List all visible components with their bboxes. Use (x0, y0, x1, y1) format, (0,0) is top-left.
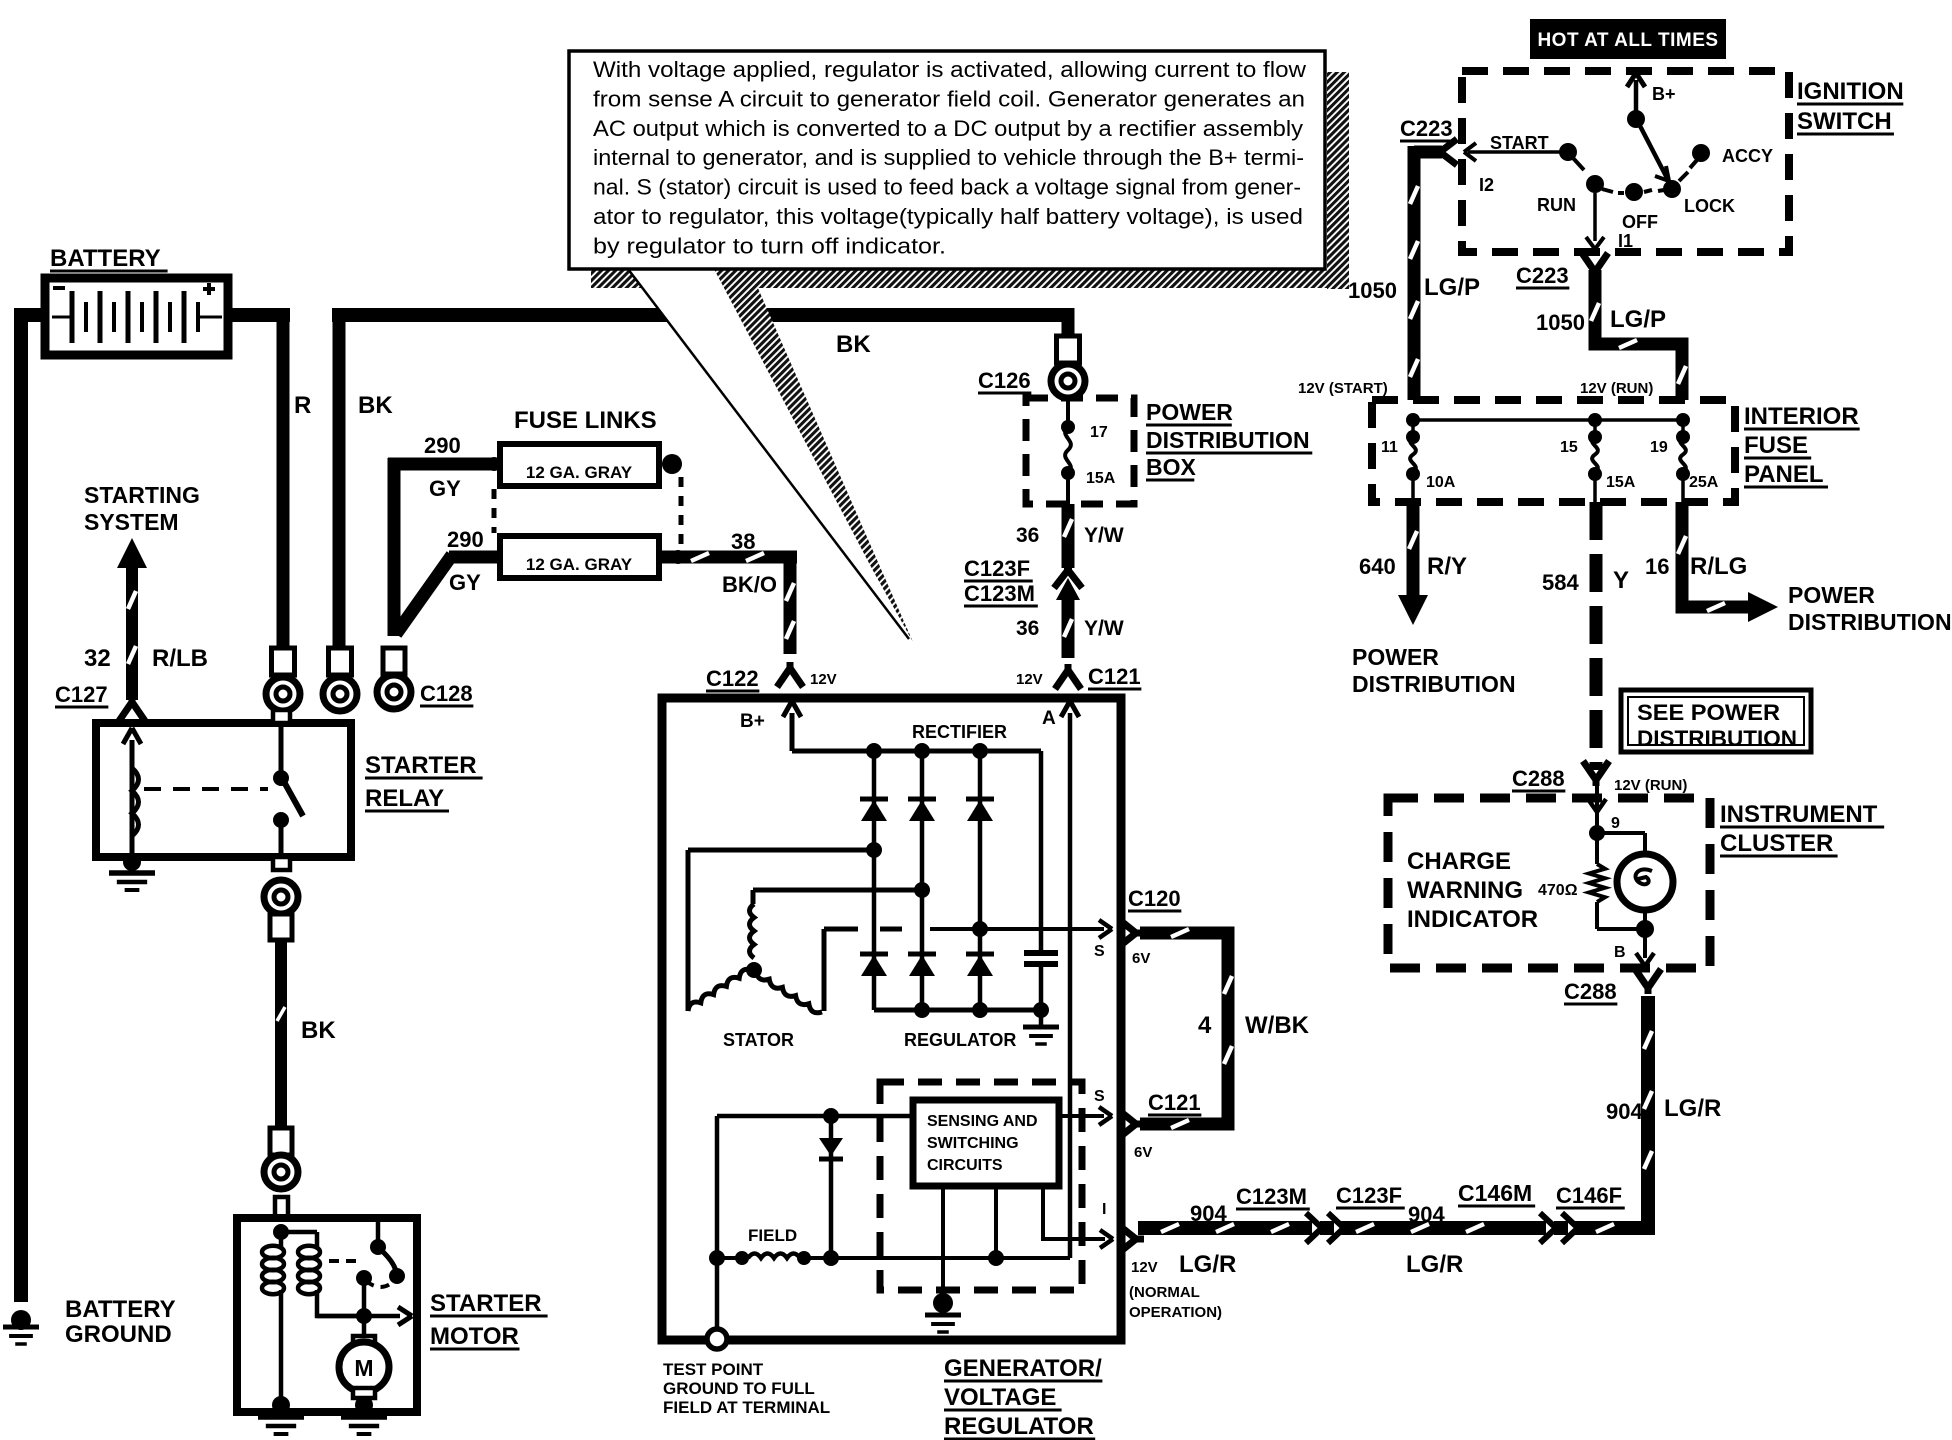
svg-text:REGULATOR: REGULATOR (904, 1030, 1016, 1050)
see power distribution box (1621, 690, 1811, 752)
svg-text:LG/R: LG/R (1664, 1095, 1721, 1122)
S circuit line to C120 (930, 920, 1112, 938)
svg-text:C123F: C123F (964, 556, 1030, 581)
svg-text:CIRCUITS: CIRCUITS (927, 1157, 1003, 1174)
svg-text:DISTRIBUTION: DISTRIBUTION (1352, 671, 1516, 697)
connector at I output (1134, 1236, 1144, 1243)
node fuse link F2 right (671, 550, 685, 564)
svg-text:internal to generator, and is: internal to generator, and is supplied t… (593, 145, 1304, 170)
svg-text:POWER: POWER (1146, 399, 1233, 425)
ring terminal on R wire (266, 648, 300, 711)
svg-text:1050: 1050 (1348, 278, 1397, 303)
wire 1050 LG/P start circuit (1410, 146, 1442, 400)
rectifier diode D2 upper (908, 799, 936, 821)
fuse 19 25A (1676, 420, 1690, 502)
svg-text:A: A (1042, 708, 1056, 729)
node bot3 (1033, 1002, 1049, 1018)
wire 290 GY to upper fuse link (388, 458, 497, 636)
starter motor box (237, 1218, 417, 1412)
starter motor ground left (258, 1396, 304, 1434)
svg-text:1050: 1050 (1536, 310, 1585, 335)
ignition switch box (1462, 71, 1789, 252)
svg-text:Y: Y (1613, 567, 1629, 594)
svg-text:OPERATION): OPERATION) (1129, 1304, 1222, 1321)
svg-text:RECTIFIER: RECTIFIER (912, 722, 1007, 742)
I output from sensing circuits (1043, 1186, 1113, 1248)
ring terminal above starter motor (264, 1128, 298, 1189)
wire 640 R/Y (1398, 502, 1428, 625)
svg-text:LG/P: LG/P (1424, 274, 1480, 301)
capacitor C (noise suppression) (1024, 751, 1058, 1010)
field suppression diode (819, 1116, 843, 1258)
node field diode top (823, 1108, 839, 1124)
svg-text:4: 4 (1198, 1012, 1212, 1039)
svg-text:PANEL: PANEL (1744, 461, 1824, 488)
wire battery negative to ground (BK) (14, 308, 48, 1302)
node bot1 (914, 1002, 930, 1018)
svg-text:10A: 10A (1426, 474, 1456, 491)
inline connector C146M/C146F (1540, 1213, 1578, 1243)
svg-text:WARNING: WARNING (1407, 877, 1523, 904)
wire 904 LG/R horizontal (1138, 1224, 1655, 1232)
connector C127 (129, 696, 136, 704)
svg-text:BATTERY: BATTERY (50, 245, 161, 272)
svg-text:LG/R: LG/R (1406, 1251, 1463, 1278)
wire 36 Y/W upper (1064, 504, 1072, 568)
rectifier bottom bus (874, 1008, 1041, 1013)
svg-text:12 GA. GRAY: 12 GA. GRAY (526, 463, 633, 482)
svg-text:470Ω: 470Ω (1538, 882, 1578, 899)
wire battery positive bus (BK) top run (332, 308, 1068, 650)
ignition switch rotor blade (1638, 122, 1669, 181)
svg-text:W/BK: W/BK (1245, 1012, 1310, 1039)
node bus fuse 19 (1676, 413, 1690, 427)
test point terminal (707, 1329, 727, 1349)
svg-text:C288: C288 (1512, 766, 1565, 791)
svg-text:C128: C128 (420, 681, 473, 706)
svg-text:BK: BK (836, 331, 871, 358)
S output from sensing circuits (1059, 1107, 1112, 1125)
svg-text:36: 36 (1016, 617, 1039, 640)
starter motor shunt coil (281, 1232, 362, 1316)
wire BK drop to C126 (1062, 308, 1075, 338)
wire START to C223 (1464, 143, 1560, 161)
wire 32 R/LB to starting system (arrow) (117, 538, 147, 700)
rectifier diode D3 upper (966, 799, 994, 821)
svg-text:904: 904 (1606, 1099, 1643, 1124)
svg-text:BATTERY: BATTERY (65, 1296, 176, 1323)
svg-text:290: 290 (424, 433, 461, 458)
contact OFF (1618, 183, 1652, 201)
svg-text:B+: B+ (740, 711, 765, 732)
dashed tie right (679, 477, 684, 548)
voltage regulator dashed box (880, 1082, 1082, 1290)
sensing circuits to field node (994, 1186, 998, 1256)
ring terminal C126 (1051, 336, 1085, 398)
wire 290 GY to lower fuse link (396, 555, 502, 634)
svg-text:(NORMAL: (NORMAL (1129, 1284, 1200, 1301)
contact ACCY (1690, 144, 1710, 168)
svg-text:I: I (1102, 1201, 1106, 1218)
svg-text:CHARGE: CHARGE (1407, 848, 1511, 875)
node bus3 (972, 743, 988, 759)
contact RUN (1586, 175, 1613, 193)
ignition switch B+ feed (1627, 73, 1645, 128)
fuse link F2 12 GA. GRAY (500, 536, 659, 578)
starter motor series field coil (262, 1232, 284, 1404)
regulator ground (925, 1186, 961, 1332)
svg-text:12V: 12V (810, 671, 837, 688)
stator phase 3 winding (756, 929, 902, 1013)
svg-text:GY: GY (449, 570, 481, 595)
svg-text:C123M: C123M (964, 581, 1035, 606)
rectifier leg 1 (872, 751, 877, 1010)
svg-text:STARTING: STARTING (84, 482, 200, 508)
connector C123F C123M inline (1054, 566, 1082, 600)
connector C288 lower (1645, 986, 1652, 994)
svg-text:INTERIOR: INTERIOR (1744, 403, 1859, 430)
wire 1050 LG/P run circuit (1591, 270, 1686, 400)
svg-text:INSTRUMENT: INSTRUMENT (1720, 801, 1878, 828)
svg-text:Y/W: Y/W (1084, 617, 1124, 640)
connector C122 (787, 662, 794, 670)
svg-text:SWITCH: SWITCH (1797, 108, 1892, 135)
node field diode bottom (823, 1250, 839, 1266)
svg-text:C121: C121 (1088, 664, 1141, 689)
svg-text:12 GA. GRAY: 12 GA. GRAY (526, 555, 633, 574)
svg-text:C121: C121 (1148, 1090, 1201, 1115)
starter motor terminal stub (275, 1197, 288, 1218)
fuse 17 15A in PDB (1061, 398, 1075, 504)
svg-text:HOT AT ALL TIMES: HOT AT ALL TIMES (1537, 30, 1718, 51)
charge indicator lamp (1597, 833, 1673, 929)
svg-text:BK/O: BK/O (722, 572, 777, 597)
dashed tie left (492, 489, 497, 533)
svg-text:START: START (1490, 133, 1549, 153)
svg-text:C146M: C146M (1458, 1180, 1532, 1206)
svg-text:12V: 12V (1016, 671, 1043, 688)
svg-text:by regulator to turn off indic: by regulator to turn off indicator. (593, 233, 946, 258)
svg-text:17: 17 (1090, 424, 1108, 441)
starter relay box (96, 723, 351, 857)
rectifier leg 2 (920, 751, 925, 1010)
ring terminal C128 (377, 648, 411, 709)
svg-text:POWER: POWER (1352, 644, 1439, 670)
svg-text:GROUND: GROUND (65, 1321, 172, 1348)
connector C288 upper (1593, 778, 1600, 786)
svg-text:LG/P: LG/P (1610, 306, 1666, 333)
regulator internal ground (1023, 1010, 1059, 1044)
node bus fuse 15 (1588, 413, 1602, 427)
svg-text:DISTRIBUTION: DISTRIBUTION (1146, 427, 1310, 453)
contact LOCK (1658, 172, 1688, 198)
connector C223 (start) (1432, 149, 1442, 156)
callout pointer wedge shadow (713, 286, 913, 642)
contact START (1559, 143, 1584, 170)
power distribution box (1026, 398, 1134, 504)
inline connector C123M/C123F (1306, 1213, 1344, 1243)
node pin B junction (1636, 920, 1654, 938)
starter relay switch (273, 723, 303, 857)
stator phase 2 winding (750, 890, 923, 958)
node bus1 (866, 743, 882, 759)
svg-text:GROUND TO FULL: GROUND TO FULL (663, 1379, 815, 1398)
svg-text:R/LB: R/LB (152, 645, 208, 672)
svg-text:FIELD: FIELD (748, 1226, 797, 1245)
field supply line (717, 1116, 913, 1338)
starter motor ground right (341, 1396, 387, 1434)
svg-text:C120: C120 (1128, 886, 1181, 911)
rectifier top bus (792, 749, 1041, 754)
svg-text:FUSE: FUSE (1744, 432, 1808, 459)
svg-text:B: B (1614, 944, 1626, 961)
svg-text:FIELD AT TERMINAL: FIELD AT TERMINAL (663, 1398, 830, 1417)
fuse panel bus (1413, 418, 1683, 422)
rectifier diode D6 lower (966, 954, 994, 976)
svg-text:6V: 6V (1134, 1144, 1152, 1161)
generator voltage regulator box (662, 698, 1121, 1340)
starter relay ground (109, 853, 155, 890)
svg-text:584: 584 (1542, 570, 1579, 595)
svg-text:GENERATOR/: GENERATOR/ (944, 1355, 1102, 1382)
svg-text:VOLTAGE: VOLTAGE (944, 1384, 1056, 1411)
wire 904 LG/R vertical (1644, 996, 1652, 1235)
node fuse link F1 right (662, 454, 682, 474)
svg-text:9: 9 (1611, 815, 1620, 832)
node pin 9 (1589, 825, 1605, 841)
rectifier leg 3 (978, 751, 983, 1010)
svg-text:C122: C122 (706, 666, 759, 691)
starter relay coil (123, 728, 141, 857)
battery B1 (45, 278, 228, 355)
node phase1 (866, 842, 882, 858)
svg-text:904: 904 (1408, 1202, 1445, 1227)
svg-text:SWITCHING: SWITCHING (927, 1135, 1019, 1152)
svg-text:12V: 12V (1131, 1259, 1158, 1276)
node phase2 (914, 882, 930, 898)
svg-text:LOCK: LOCK (1684, 196, 1735, 216)
connector C120 (1134, 930, 1144, 937)
stator phase 1 winding (688, 850, 874, 1011)
svg-text:C223: C223 (1400, 116, 1453, 141)
svg-text:FUSE LINKS: FUSE LINKS (514, 407, 657, 434)
node fuse link F1 left (487, 457, 501, 471)
wire battery positive to starter relay (R) (225, 308, 290, 650)
starter motor M (339, 1316, 389, 1404)
starter motor junction node (273, 1224, 289, 1240)
svg-text:6V: 6V (1132, 950, 1150, 967)
svg-text:11: 11 (1381, 439, 1398, 456)
wire to pin B (1636, 929, 1654, 966)
svg-text:BK: BK (358, 392, 393, 419)
rectifier diode D4 lower (860, 954, 888, 976)
ring terminal below starter relay (264, 880, 298, 940)
starter motor solenoid switch (329, 1221, 405, 1316)
svg-text:Y/W: Y/W (1084, 524, 1124, 547)
connector C121 lower (1134, 1121, 1144, 1128)
svg-text:12V (START): 12V (START) (1298, 380, 1388, 397)
connector C223 (run) (1592, 270, 1599, 278)
wire 4 W/BK loop (1140, 929, 1232, 1128)
svg-text:640: 640 (1359, 554, 1396, 579)
svg-text:R/Y: R/Y (1427, 553, 1467, 580)
svg-text:TEST POINT: TEST POINT (663, 1360, 764, 1379)
svg-text:32: 32 (84, 645, 111, 672)
sensing and switching circuits box (913, 1100, 1059, 1186)
fuse link F1 12 GA. GRAY (500, 444, 659, 486)
fuse 15 15A (1588, 420, 1602, 502)
svg-text:MOTOR: MOTOR (430, 1323, 519, 1350)
ring terminal on BK wire (323, 648, 357, 711)
node field sense (988, 1250, 1004, 1266)
svg-text:LG/R: LG/R (1179, 1251, 1236, 1278)
connector C121 top (1065, 664, 1072, 672)
wire 16 R/LG (1678, 502, 1778, 622)
svg-text:BK: BK (301, 1017, 336, 1044)
svg-text:R/LG: R/LG (1690, 553, 1747, 580)
svg-text:AC output which is converted t: AC output which is converted to a DC out… (593, 116, 1303, 141)
svg-text:OFF: OFF (1622, 212, 1658, 232)
svg-text:C123F: C123F (1336, 1183, 1402, 1208)
svg-text:nal. S (stator) circuit is use: nal. S (stator) circuit is used to feed … (593, 175, 1301, 200)
wire 36 Y/W lower (1064, 598, 1072, 658)
svg-text:36: 36 (1016, 524, 1039, 547)
svg-text:904: 904 (1190, 1201, 1227, 1226)
svg-text:I1: I1 (1618, 231, 1633, 251)
svg-text:from sense A circuit to genera: from sense A circuit to generator field … (593, 86, 1305, 111)
svg-text:DISTRIBUTION: DISTRIBUTION (1637, 726, 1797, 751)
svg-text:R: R (294, 392, 311, 419)
svg-text:C123M: C123M (1236, 1184, 1307, 1209)
svg-text:S: S (1094, 1088, 1105, 1105)
battery ground symbol (3, 1310, 39, 1344)
rectifier diode D1 upper (860, 799, 888, 821)
svg-text:12V (RUN): 12V (RUN) (1580, 380, 1653, 397)
svg-text:C288: C288 (1564, 979, 1617, 1004)
svg-text:RUN: RUN (1537, 195, 1576, 215)
svg-text:STATOR: STATOR (723, 1030, 794, 1050)
svg-text:19: 19 (1650, 439, 1668, 456)
svg-text:C146F: C146F (1556, 1183, 1622, 1208)
rectifier diode D5 lower (908, 954, 936, 976)
svg-text:M: M (354, 1355, 373, 1381)
svg-text:I2: I2 (1479, 175, 1494, 195)
node phase3 / S (972, 921, 988, 937)
cluster feed arrow (1588, 782, 1606, 830)
resistor 470 ohm (1589, 833, 1645, 929)
wire RUN to I1 (1586, 193, 1604, 249)
field winding (717, 1251, 1070, 1265)
starter motor output node and arrow (317, 1307, 412, 1325)
svg-text:25A: 25A (1689, 474, 1719, 491)
svg-text:STARTER: STARTER (430, 1290, 542, 1317)
wire starter relay to starter motor (BK) (277, 938, 285, 1130)
node field left (709, 1250, 725, 1266)
svg-text:12V (RUN): 12V (RUN) (1614, 777, 1687, 794)
wire 38 BK/O (659, 551, 797, 654)
svg-text:290: 290 (447, 527, 484, 552)
svg-text:POWER: POWER (1788, 582, 1875, 608)
stator neutral node (746, 962, 762, 978)
starter relay terminal bottom (273, 857, 290, 870)
svg-text:15A: 15A (1606, 474, 1636, 491)
svg-text:SEE POWER: SEE POWER (1637, 700, 1780, 725)
interior fuse panel box (1372, 400, 1735, 502)
svg-text:INDICATOR: INDICATOR (1407, 906, 1538, 933)
callout pointer wedge (628, 269, 909, 639)
svg-text:15: 15 (1560, 439, 1578, 456)
svg-text:GY: GY (429, 476, 461, 501)
terminal A arrow and sense line (1061, 701, 1079, 1258)
svg-text:RELAY: RELAY (365, 785, 444, 812)
svg-text:ACCY: ACCY (1722, 146, 1773, 166)
svg-text:STARTER: STARTER (365, 752, 477, 779)
node bus2 (914, 743, 930, 759)
svg-text:With voltage applied, regulato: With voltage applied, regulator is activ… (593, 57, 1306, 82)
svg-text:IGNITION: IGNITION (1797, 78, 1904, 105)
svg-text:REGULATOR: REGULATOR (944, 1413, 1094, 1440)
instrument cluster box (1388, 798, 1710, 968)
svg-text:ator to regulator, this voltag: ator to regulator, this voltage(typicall… (593, 204, 1303, 229)
svg-text:SENSING AND: SENSING AND (927, 1113, 1038, 1130)
starter relay terminal top (273, 710, 290, 723)
starter relay dashed link (144, 787, 268, 791)
svg-text:C127: C127 (55, 682, 108, 707)
svg-text:CLUSTER: CLUSTER (1720, 830, 1833, 857)
svg-text:C126: C126 (978, 368, 1031, 393)
wire 584 Y (see power distribution) (1590, 502, 1603, 770)
hot at all times banner (1530, 19, 1726, 59)
callout note box (569, 51, 1325, 269)
svg-text:C223: C223 (1516, 263, 1569, 288)
svg-text:DISTRIBUTION: DISTRIBUTION (1788, 609, 1952, 635)
fuse 11 10A (1406, 420, 1420, 502)
svg-text:B+: B+ (1652, 84, 1676, 104)
svg-text:SYSTEM: SYSTEM (84, 509, 179, 535)
svg-text:S: S (1094, 943, 1105, 960)
node bus fuse 11 (1406, 413, 1420, 427)
svg-text:38: 38 (731, 529, 755, 554)
svg-text:15A: 15A (1086, 470, 1116, 487)
svg-text:16: 16 (1645, 554, 1669, 579)
node bot2 (972, 1002, 988, 1018)
terminal B+ arrow (783, 701, 801, 751)
svg-text:BOX: BOX (1146, 454, 1197, 480)
callout shadow (591, 72, 1349, 289)
